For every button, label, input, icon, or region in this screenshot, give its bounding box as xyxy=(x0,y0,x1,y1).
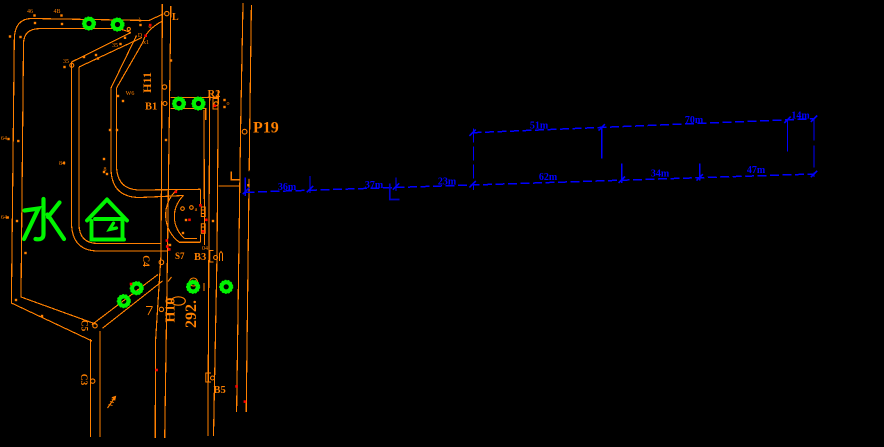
node oval near H10 xyxy=(171,297,185,305)
svg-text:84: 84 xyxy=(59,161,65,167)
node C3 circle xyxy=(91,379,95,383)
wire inner loop top-left xyxy=(21,29,131,325)
dimension extension x472 (connector) xyxy=(473,129,475,190)
wire C5 shaft east line xyxy=(99,331,101,437)
tick squares on tunnels xyxy=(7,14,226,317)
wire B1 crosscut bottom xyxy=(171,109,206,121)
svg-text:B1: B1 xyxy=(145,102,157,113)
wire fork diagonal upper xyxy=(72,33,132,63)
svg-text:H11: H11 xyxy=(140,72,154,93)
svg-text:L: L xyxy=(172,12,179,23)
wire C5 diagonal lower xyxy=(103,281,163,328)
pump room rectangle upper xyxy=(201,207,205,233)
gear G4 (air door symbol) xyxy=(192,97,205,110)
svg-text:k: k xyxy=(139,18,142,24)
svg-text:64: 64 xyxy=(1,136,7,142)
tick square on incline xyxy=(247,184,249,186)
wire turnaround arc inner xyxy=(174,196,184,239)
wire pump room east vertical xyxy=(199,189,201,242)
node P19 circle xyxy=(242,129,247,134)
svg-text:P19: P19 xyxy=(253,120,279,137)
gear G3 (air door symbol) xyxy=(173,97,186,110)
gear G2 (air door symbol) xyxy=(111,18,124,31)
svg-text:o: o xyxy=(227,101,230,107)
bracket near B3 xyxy=(210,251,214,263)
wire connector lane y179.7 xyxy=(231,172,240,180)
wire horizontal lane y287 xyxy=(167,283,204,291)
svg-text:292.: 292. xyxy=(183,300,200,328)
dimension extension x601 xyxy=(601,127,603,158)
dimension oblique ticks xyxy=(243,116,817,195)
wire B1 crosscut top xyxy=(171,96,219,98)
bracket near R2 xyxy=(213,99,218,110)
glyph right of B3 xyxy=(220,252,223,262)
slope arrow lower-left xyxy=(108,397,116,409)
wire S-curve branch outer (to arc top) xyxy=(117,22,201,191)
wire sump west vertical inner + C4 lane upper xyxy=(79,67,161,244)
node arc inner circle a xyxy=(181,207,185,211)
svg-text:35: 35 xyxy=(63,59,69,65)
wire arc inner bottom lane xyxy=(185,238,197,240)
svg-text:62m: 62m xyxy=(539,172,558,183)
dimension extension x787 xyxy=(787,120,789,152)
gear G7 (air door symbol) xyxy=(187,280,200,293)
wire H11 shaft west line xyxy=(155,16,162,438)
svg-text:C5: C5 xyxy=(79,320,89,332)
wire incline east line xyxy=(246,5,251,412)
dimension extension x814 (connector) xyxy=(813,119,815,177)
wire connector lane y186 xyxy=(219,185,240,187)
svg-text:51m: 51m xyxy=(530,121,549,132)
svg-text:C4: C4 xyxy=(140,255,150,267)
node B5 circle xyxy=(211,376,215,380)
text SHUI (water) character xyxy=(24,199,64,239)
wire H11 shaft top stubs xyxy=(162,4,170,16)
micro labels xyxy=(1,9,230,252)
svg-text:4B: 4B xyxy=(53,9,60,15)
svg-text:23m: 23m xyxy=(438,177,457,188)
wire arc bottom lane xyxy=(179,241,200,243)
wire turnaround arc outer xyxy=(166,190,180,243)
node R2 circle xyxy=(214,102,218,106)
gap in incline east line xyxy=(248,171,251,179)
svg-text:46: 46 xyxy=(27,9,33,15)
dimension chain lower xyxy=(246,174,815,192)
node bracket circle xyxy=(127,27,130,30)
dimension extension x699 xyxy=(699,164,701,181)
svg-text:W6: W6 xyxy=(126,91,135,97)
svg-text:x1: x1 xyxy=(143,40,149,46)
node above B1 glyph xyxy=(162,85,166,89)
dimension extension x396 xyxy=(395,178,397,192)
svg-text:R2: R2 xyxy=(208,89,221,100)
dimension extension x621 xyxy=(621,164,623,184)
svg-text:8: 8 xyxy=(104,167,107,173)
bracket near B5 xyxy=(206,373,211,382)
gear G6 (air door symbol) xyxy=(117,295,130,308)
node B3 circle xyxy=(214,256,218,260)
wire C5 shaft west line xyxy=(90,339,92,437)
svg-text:14m: 14m xyxy=(791,111,810,122)
node C4 circle xyxy=(159,260,164,265)
svg-text:B5: B5 xyxy=(214,385,226,396)
svg-text:S7: S7 xyxy=(175,251,185,261)
wire outer loop top-left xyxy=(11,14,163,341)
svg-text:D: D xyxy=(138,33,143,39)
wire fork diagonal lower xyxy=(79,38,142,68)
svg-text:64: 64 xyxy=(1,215,7,221)
node B1 circle xyxy=(163,102,167,106)
gear G8 (air door symbol) xyxy=(220,280,233,293)
dimension chain upper xyxy=(473,119,814,133)
wire B roadway line (209) xyxy=(208,97,210,436)
wire B roadway line (218) xyxy=(214,90,219,436)
small slash on shaft xyxy=(168,277,172,282)
text CANG (bunker) character xyxy=(87,200,127,240)
gear G5 (air door symbol) xyxy=(130,282,143,295)
gear G1 (air door symbol) xyxy=(83,17,96,30)
svg-text:36m: 36m xyxy=(278,182,297,193)
wire H11 shaft east line xyxy=(165,16,171,438)
wire incline west line xyxy=(237,3,243,412)
node circle under gear G7 xyxy=(190,278,198,286)
wire S-curve branch inner xyxy=(111,36,184,198)
svg-text:34m: 34m xyxy=(651,169,670,180)
dimension extension x246 xyxy=(244,178,246,197)
node fork circle xyxy=(70,63,74,67)
pump room rectangle lower xyxy=(201,224,205,234)
svg-text:a: a xyxy=(195,207,198,213)
node C5 circle xyxy=(93,324,97,328)
dimension extension x310 xyxy=(309,176,311,193)
node L circle xyxy=(165,11,169,15)
wire C4 lane end cap xyxy=(167,244,169,252)
node circle below C4 xyxy=(159,307,163,311)
wire C5 diagonal upper xyxy=(92,275,158,325)
svg-text:B3: B3 xyxy=(194,252,206,263)
node arc inner circle b xyxy=(190,206,194,210)
svg-text:C3: C3 xyxy=(78,374,88,386)
svg-text:70m: 70m xyxy=(685,115,704,126)
red station dots xyxy=(130,24,247,403)
benchmark L mark (dark blue) xyxy=(390,184,400,200)
svg-text:37m: 37m xyxy=(365,180,384,191)
svg-text:H10: H10 xyxy=(164,298,179,323)
wire sump west vertical outer + C4 lane lower xyxy=(72,62,169,251)
slope mark near H10 xyxy=(146,307,153,316)
svg-text:35: 35 xyxy=(112,43,118,49)
wire B2 roadway west line xyxy=(203,110,206,245)
svg-text:47m: 47m xyxy=(747,165,766,176)
